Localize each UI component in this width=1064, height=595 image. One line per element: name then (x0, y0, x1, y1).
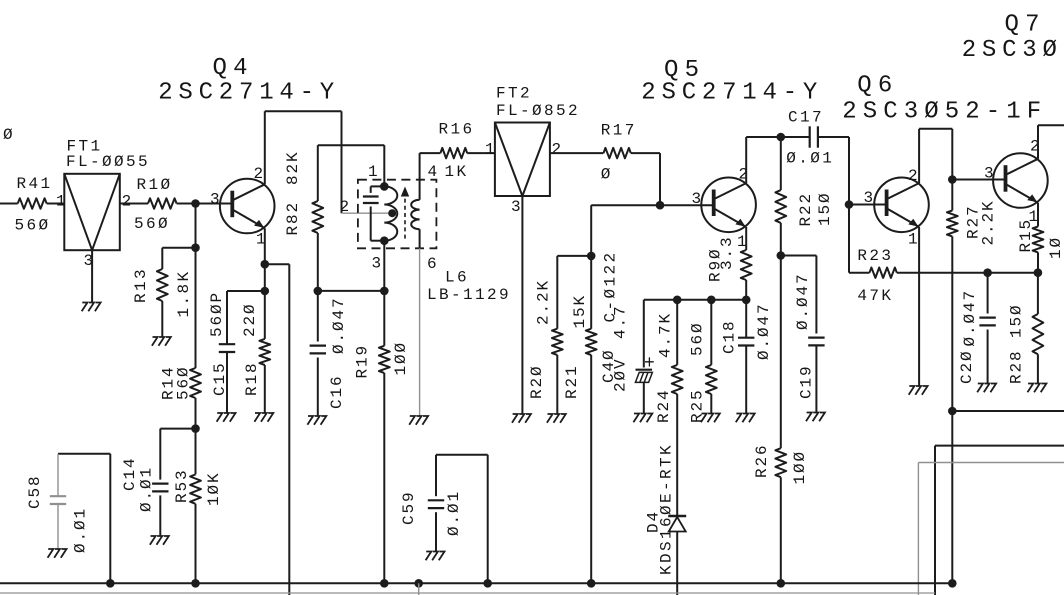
svg-text:1: 1 (368, 163, 380, 181)
svg-text:1: 1 (56, 193, 68, 211)
wire: R13 to ground (161, 301, 163, 337)
svg-text:2ØV: 2ØV (612, 357, 630, 392)
svg-text:2SC2714-Y: 2SC2714-Y (158, 79, 340, 106)
svg-text:1Ø: 1Ø (1047, 236, 1064, 259)
svg-text:3: 3 (692, 190, 704, 208)
node: junction output line (948, 407, 957, 416)
wire: C58 loop to bus (109, 454, 111, 584)
svg-text:R22: R22 (797, 192, 815, 227)
wire: R21 to AGC bus (590, 355, 592, 583)
node: junction R90/C18/bias rail (742, 296, 751, 305)
node: bus drop (414, 579, 423, 588)
svg-text:2: 2 (254, 165, 266, 183)
svg-text:3: 3 (511, 198, 523, 216)
wire: emitter drop to bottom line (265, 263, 290, 265)
svg-text:3: 3 (864, 189, 876, 207)
node: junction base Q4 / R13-R14 branch (191, 199, 200, 208)
wire: FT2 pin2 to R17 (550, 152, 604, 154)
svg-text:FL-Ø852: FL-Ø852 (496, 102, 580, 120)
svg-text:R1Ø: R1Ø (137, 176, 173, 194)
transistor Q7 2SC3052-1F (993, 153, 1048, 208)
resistor R53 10K (190, 474, 201, 503)
svg-text:KDS16ØE-RTK: KDS16ØE-RTK (658, 443, 676, 575)
node: junction Q5 base / R20 R21 branch (656, 201, 665, 210)
wire: R23 branch down (848, 205, 850, 273)
svg-text:15Ø: 15Ø (816, 191, 834, 226)
wire: R27 line to AGC bus end (951, 411, 953, 583)
wire: AGC bus (0, 582, 952, 584)
ground FT1 (82, 303, 101, 312)
wire: input to R41 (0, 203, 18, 205)
ground R28 (1028, 384, 1047, 393)
wire: R25 to ground (710, 394, 712, 413)
ground L6 pin6 (409, 416, 428, 425)
wire: gray drop below bus (418, 583, 420, 595)
capacitor C15 560P (219, 343, 235, 345)
svg-text:2SC3Ø52-1F: 2SC3Ø52-1F (842, 98, 1047, 125)
wire: Q7 emitter to R15 (1037, 203, 1039, 227)
resistor R90 3.3 (741, 250, 752, 280)
wire: output corner gray (918, 462, 1064, 464)
node: L6 pin3 bottom of winding (380, 236, 389, 245)
wire: R27 down to output node (951, 236, 953, 411)
L6 primary winding (384, 186, 397, 240)
svg-text:2: 2 (122, 193, 134, 211)
svg-text:15Ø: 15Ø (1008, 303, 1026, 338)
L6 secondary winding (411, 200, 419, 229)
wire: FT1 pin3 stub (91, 250, 93, 302)
svg-text:3: 3 (984, 165, 996, 183)
svg-text:C16: C16 (328, 374, 346, 409)
L6 dashed tuning arrow (404, 197, 406, 239)
ground C40 (633, 414, 652, 423)
resistor R41 (18, 198, 47, 208)
svg-text:R15: R15 (1017, 218, 1035, 253)
svg-text:2.2K: 2.2K (535, 279, 553, 325)
svg-text:1ØØ: 1ØØ (791, 450, 809, 485)
svg-text:1: 1 (737, 233, 749, 251)
svg-text:3.3: 3.3 (718, 235, 736, 270)
wire: filter drive wire y=153 (420, 152, 441, 154)
wire: R15 to rail (1037, 252, 1039, 272)
svg-text:C14: C14 (121, 456, 139, 491)
wire: L6 pin4 up to filter wire (419, 153, 421, 200)
wire: L6 pin3 down to R19 (383, 241, 385, 346)
ground R25 (701, 414, 720, 423)
wire: R90 to bias node (745, 280, 747, 300)
svg-text:Ø.Ø47: Ø.Ø47 (755, 302, 773, 360)
wire: R22 to C19/R26 node (780, 223, 782, 256)
svg-text:1.8K: 1.8K (175, 269, 193, 317)
node: junction R82/C16 (314, 287, 323, 296)
wire: bias rail to C40 (644, 299, 746, 301)
wire: R28 to ground (1037, 354, 1039, 383)
svg-text:4.7: 4.7 (612, 304, 630, 339)
node: junction emitter branch to bottom rail (261, 260, 270, 269)
wire: bottom line (0, 592, 935, 594)
ground C58 (48, 549, 67, 558)
capacitor C14 0.01 (152, 483, 168, 485)
svg-text:2: 2 (739, 166, 751, 184)
svg-text:R13: R13 (132, 267, 150, 303)
svg-text:Ø: Ø (3, 126, 15, 144)
wire: Q7 collector out right (1037, 125, 1039, 159)
wire: R53 to AGC bus (195, 504, 197, 584)
ground FT2 (512, 414, 531, 423)
resistor R23 47K (849, 272, 870, 274)
wire: R10 to Q4 base (177, 203, 233, 205)
wire: Q5 collector to C17/R22 node (745, 137, 747, 183)
svg-text:Ø.Ø1: Ø.Ø1 (138, 466, 156, 512)
node: bus R21 (587, 579, 596, 588)
svg-text:FT2: FT2 (496, 85, 532, 103)
ground C14 (150, 536, 169, 545)
svg-text:1: 1 (256, 231, 268, 249)
resistor R17 0 (604, 148, 631, 158)
node: junction C19/R26 (777, 251, 786, 260)
ground C19 (806, 413, 825, 422)
wire: to Q6 base (849, 204, 887, 206)
svg-text:C18: C18 (721, 319, 739, 354)
wire: D4 anode to bottom line (676, 532, 678, 595)
svg-text:1: 1 (485, 141, 497, 159)
resistor R28 150 (1037, 273, 1039, 314)
wire: C15 to ground (226, 352, 228, 412)
svg-text:Q7: Q7 (1005, 12, 1046, 39)
svg-text:C19: C19 (798, 364, 816, 399)
svg-text:R16: R16 (439, 121, 475, 139)
svg-text:R53: R53 (173, 468, 191, 503)
capacitor C20 0.047 (987, 273, 989, 314)
svg-text:C59: C59 (400, 490, 418, 525)
wire: C19 to ground (815, 346, 817, 413)
svg-text:C2Ø: C2Ø (958, 349, 976, 384)
transistor Q4 2SC2714-Y (220, 179, 275, 234)
wire: C59 loop to bus (487, 455, 489, 584)
wire: Q5 emitter to R90 (745, 227, 747, 250)
capacitor C16 0.047 (317, 291, 319, 342)
wire: branch to R13 (162, 247, 195, 249)
svg-text:LB-1129: LB-1129 (427, 286, 511, 304)
wire: branch to C15 (227, 290, 265, 292)
node: junction R13 branch (191, 243, 200, 252)
wire: Q6 collector loop to Q7 base (918, 129, 920, 183)
resistor R27 2.2K (951, 180, 953, 211)
resistor R13 1.8K (157, 269, 168, 301)
svg-text:82K: 82K (284, 150, 302, 185)
wire: R20 to ground (556, 355, 558, 414)
node: junction C15 branch (261, 287, 270, 296)
wire: branch to R20 (557, 255, 591, 257)
svg-text:56Ø: 56Ø (134, 215, 170, 233)
wire: C17 to Q6 base (818, 136, 849, 138)
svg-text:2.2K: 2.2K (980, 199, 998, 245)
wire: C16 to ground (317, 358, 319, 416)
wire: R26 to AGC bus (780, 477, 782, 583)
L6 internal capacitor (371, 185, 385, 187)
transistor Q5 2SC2714-Y (701, 178, 756, 233)
svg-text:Q4: Q4 (213, 55, 254, 82)
capacitor C59 0.01 loop (436, 454, 488, 456)
wire: FT1 pin2 to R10 (120, 203, 148, 205)
svg-text:56Ø: 56Ø (175, 365, 193, 400)
svg-text:Ø.Ø47: Ø.Ø47 (794, 272, 812, 330)
svg-text:6: 6 (427, 255, 439, 273)
svg-text:R18: R18 (243, 361, 261, 396)
svg-text:FL-ØØ55: FL-ØØ55 (66, 153, 150, 171)
wire: R14 to R53 (195, 398, 197, 474)
node: bus R26 (777, 579, 786, 588)
ground C18 (736, 414, 755, 423)
svg-text:R24: R24 (655, 388, 673, 423)
wire: R19 to AGC bus (383, 373, 385, 583)
svg-text:Ø: Ø (601, 166, 613, 184)
wire: vertical bias chain from Q4 base node (195, 204, 197, 369)
svg-text:R21: R21 (563, 364, 581, 399)
wire: to Q5 base (660, 204, 714, 206)
svg-text:2SC3Ø: 2SC3Ø (962, 37, 1063, 64)
ground C59 (426, 552, 445, 561)
wire: Q4 emitter chain (264, 228, 266, 339)
svg-text:Q6: Q6 (857, 73, 898, 100)
resistor R15 10 (1033, 227, 1044, 253)
svg-text:2: 2 (340, 198, 352, 216)
svg-text:56Ø: 56Ø (15, 217, 51, 235)
capacitor C19 0.047 (808, 337, 824, 339)
ground R13 (152, 337, 171, 346)
wire: C40 to ground (643, 382, 645, 413)
svg-text:Ø.Ø1: Ø.Ø1 (72, 507, 90, 553)
ground R18 (254, 413, 273, 422)
node: bus R53 (191, 579, 200, 588)
wire: Q4 collector up and over to L6 tap feed (264, 111, 266, 184)
svg-text:2: 2 (1030, 138, 1042, 156)
svg-text:1K: 1K (445, 163, 469, 181)
svg-text:Ø.Ø47: Ø.Ø47 (330, 296, 348, 354)
wire: branch to C19 (781, 255, 817, 257)
svg-text:R17: R17 (601, 122, 637, 140)
wire: R18 to ground (264, 365, 266, 413)
wire: L6 pin6 to ground (thin) (419, 248, 421, 415)
node: junction C14 branch (191, 424, 200, 433)
wire: R41 to FT1 pin1 (47, 203, 65, 205)
transistor Q6 2SC3052-1F (874, 178, 929, 233)
resistor R18 220 (259, 339, 270, 365)
resistor R14 560 (190, 368, 201, 398)
resistor R26 100 (780, 256, 782, 449)
node: L6 pin2 tap (388, 209, 396, 217)
wire: to Q7 base (952, 179, 1005, 181)
resistor R21 15K (590, 256, 592, 329)
wire: C59 to ground (435, 512, 437, 551)
svg-text:22Ø: 22Ø (241, 302, 259, 337)
resistor R20 2.2K (552, 329, 563, 355)
node: bus R19 (380, 579, 389, 588)
capacitor C40 4.7/20V electrolytic (643, 300, 645, 368)
wire: R82 bottom to C16/R19 node (317, 233, 319, 291)
wire: branch to C14 (160, 428, 195, 430)
svg-text:15K: 15K (571, 294, 589, 329)
transformer L6 LB-1129 dashed box (358, 180, 437, 249)
svg-text:R28: R28 (1008, 349, 1026, 384)
svg-text:R2Ø: R2Ø (528, 364, 546, 399)
svg-text:Ø.Ø1: Ø.Ø1 (786, 150, 834, 168)
diode D4 KDS160E-RTK (668, 515, 686, 517)
node: bus C58 (106, 579, 115, 588)
svg-text:1ØØ: 1ØØ (392, 341, 410, 376)
svg-text:4.7K: 4.7K (657, 312, 675, 358)
svg-text:56ØP: 56ØP (208, 291, 226, 337)
svg-text:R41: R41 (17, 175, 53, 193)
node: junction R22 top (777, 133, 786, 142)
svg-text:56Ø: 56Ø (689, 321, 707, 356)
wire: Q6 emitter to ground (918, 227, 920, 386)
wire: gray tap line into L6 pin2 (342, 212, 393, 214)
wire: C14 to ground (159, 495, 161, 535)
node: junction Q7 base / R27 (948, 175, 957, 184)
svg-text:3: 3 (210, 191, 222, 209)
ground C16 (307, 416, 326, 425)
resistor R22 150 (780, 137, 782, 190)
svg-text:2SC2714-Y: 2SC2714-Y (641, 79, 823, 106)
wire: R24 to D4 cathode (676, 394, 678, 515)
node: bus end (948, 579, 957, 588)
capacitor C18 0.047 (745, 300, 747, 338)
node: junction L6 pin3 / R82 link (380, 287, 389, 296)
wire: R82 top to L6 pin1 (318, 144, 385, 146)
filter FT2 FL-0852 (495, 123, 550, 197)
node: junction R24 (673, 296, 682, 305)
wire: R23 to C20/R28 rail (897, 272, 1038, 274)
node: junction R15/R28 (1034, 268, 1043, 277)
resistor R16 1K (440, 148, 467, 158)
svg-text:R19: R19 (354, 344, 372, 379)
node: L6 pin1 top of winding (380, 182, 389, 191)
svg-text:R23: R23 (857, 247, 893, 265)
svg-text:Ø.Ø47: Ø.Ø47 (961, 289, 979, 347)
wire: link to L6 pin3 line (318, 290, 385, 292)
wire: FT2 pin3 to ground (521, 196, 523, 414)
svg-text:3: 3 (372, 255, 384, 273)
svg-text:+: + (644, 354, 655, 374)
wire: output line right (952, 410, 1064, 412)
svg-text:C17: C17 (788, 109, 824, 127)
resistor R25 560 (710, 300, 712, 365)
svg-text:C58: C58 (26, 474, 44, 509)
resistor R82 82K (317, 145, 319, 201)
svg-text:3: 3 (84, 252, 96, 270)
resistor R24 4.7K (676, 300, 678, 365)
svg-text:1ØK: 1ØK (205, 471, 223, 506)
svg-text:R82: R82 (284, 201, 302, 236)
ground C20 (977, 384, 996, 393)
wire: R17 to Q5 base node (631, 152, 660, 154)
svg-text:47K: 47K (857, 287, 893, 305)
wire: output corner dark (935, 445, 1064, 447)
wire: branch down to R20/R21 (591, 204, 660, 206)
capacitor C58 0.01 loop (58, 453, 110, 455)
ground Q6 emitter (909, 386, 928, 395)
svg-text:R26: R26 (753, 443, 771, 478)
svg-text:L6: L6 (445, 269, 469, 287)
node: junction R25 (707, 296, 716, 305)
svg-text:4: 4 (428, 163, 440, 181)
filter FT1 FL-0055 (64, 174, 120, 250)
resistor R19 100 (379, 346, 390, 373)
node: bus C59 (483, 579, 492, 588)
node: junction C20 (983, 268, 992, 277)
node: junction R20/R21 (587, 252, 596, 261)
resistor R10 (148, 198, 177, 208)
ground C15 (217, 413, 236, 422)
wire: R16 to FT2 pin1 (467, 152, 495, 154)
wire: L6 secondary lower lead (419, 229, 421, 248)
capacitor C17 0.01 (809, 126, 811, 147)
node: junction Q6 base / R23 (845, 200, 854, 209)
wire: C18 to ground (745, 346, 747, 413)
ground R20 (547, 414, 566, 423)
svg-text:Ø.Ø1: Ø.Ø1 (445, 490, 463, 536)
svg-text:2: 2 (552, 141, 564, 159)
wire: C20 to ground (987, 330, 989, 384)
